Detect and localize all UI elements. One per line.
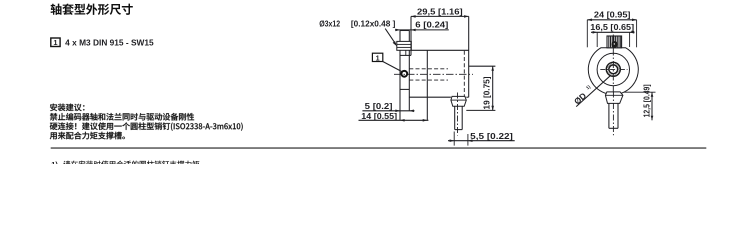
side view: shaft column: [400, 31, 409, 121]
front view: dimension 24 [0.95]: [587, 10, 636, 48]
svg-text:1): 1): [51, 160, 58, 164]
svg-text:16,5 [0.65]: 16,5 [0.65]: [590, 22, 634, 32]
side view: cable tube: [455, 106, 463, 129]
side view: cable axis: [457, 93, 459, 136]
svg-text:1: 1: [53, 38, 57, 47]
footnote (clipped at bottom): [63, 161, 199, 168]
svg-text:12,5 [0.49]: 12,5 [0.49]: [641, 84, 651, 117]
front view: collar with slots: [607, 36, 622, 48]
svg-text:5 [0.2]: 5 [0.2]: [365, 101, 393, 111]
side view: dimension 19 [0.75]: [466, 66, 495, 110]
svg-text:29,5 [1.16]: 29,5 [1.16]: [417, 6, 463, 16]
front view: inner bezel circle: [597, 53, 629, 85]
svg-text:1): 1): [585, 84, 592, 91]
front view: label ØD with leader: [572, 76, 610, 107]
side view: hidden bore lines: [409, 68, 448, 70]
side view: hidden connector line: [463, 51, 465, 97]
svg-text:19 [0.75]: 19 [0.75]: [482, 76, 492, 109]
side view: dimension 14 [0.55]: [359, 111, 429, 122]
front view: cable boss nut: [605, 92, 623, 104]
front view: outer circle with flat top: [588, 48, 638, 95]
svg-text:1: 1: [376, 53, 380, 62]
side view: clamp collar with slots: [397, 41, 412, 50]
side view: set screw: [401, 71, 407, 77]
side view: label Ø3x12 [0.12x0.48] with leader: [319, 18, 397, 46]
svg-text:ØD: ØD: [572, 91, 588, 107]
front view: dimension 12,5 [0.49]: [624, 84, 656, 120]
side view: dimension 5,5 [0.22]: [448, 131, 515, 145]
svg-text:Ø3x12: Ø3x12: [319, 18, 340, 28]
front view: cable tube: [609, 103, 618, 128]
title 轴套型外形尺寸: [51, 4, 133, 15]
svg-text:4 x M3 DIN 915 - SW15: 4 x M3 DIN 915 - SW15: [65, 37, 154, 47]
svg-text:24 [0.95]: 24 [0.95]: [594, 10, 631, 20]
svg-text:[0.12x0.48 ]: [0.12x0.48 ]: [351, 18, 396, 28]
side view: axis center line: [394, 73, 473, 75]
paragraph 安装建议: [50, 104, 243, 140]
side view: dimension 5 [0.2]: [362, 101, 414, 112]
side view: dimension 6 [0.24]: [395, 20, 449, 32]
side view: cable gland nut: [451, 96, 466, 106]
note callout box 1: [51, 38, 60, 47]
side view: callout box 1 with leader: [372, 53, 401, 71]
front view: cable axis: [612, 92, 614, 136]
horizontal rule: [51, 147, 707, 149]
side view: body outline: [400, 16, 469, 120]
side view: dimension 29,5 [1.16]: [411, 6, 469, 17]
svg-text:14 [0.55]: 14 [0.55]: [361, 111, 397, 121]
front view: dimension 16,5 [0.65]: [590, 22, 634, 47]
front view: center hole with hatch: [606, 62, 620, 76]
svg-text:5,5 [0.22]: 5,5 [0.22]: [470, 131, 513, 141]
front view: axis cross: [612, 35, 614, 49]
svg-text:6 [0.24]: 6 [0.24]: [415, 20, 448, 30]
